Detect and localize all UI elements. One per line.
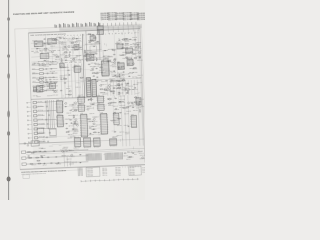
UL vertical stubs — [46, 36, 80, 61]
transistor Q144 — [119, 101, 121, 103]
capacitor C110 — [49, 79, 51, 80]
miscellaneous interconnect wires — [34, 31, 143, 152]
svg-text:C125: C125 — [56, 62, 59, 64]
svg-text:R300 3.3K: R300 3.3K — [102, 75, 108, 77]
svg-text:R350 330: R350 330 — [119, 92, 124, 94]
svg-text:P836 GND: P836 GND — [130, 174, 135, 176]
svg-text:R499 4.7K: R499 4.7K — [140, 158, 145, 160]
resistor R284 — [93, 72, 95, 75]
connector CN302 pins — [92, 81, 96, 94]
mid box Q — [50, 129, 57, 136]
vertical wire from bus — [98, 30, 101, 50]
diode D126 — [118, 91, 120, 93]
IC202 block — [117, 42, 124, 49]
connector J407 row — [28, 127, 57, 131]
resistor R223 — [113, 49, 115, 52]
svg-text:R346 100: R346 100 — [111, 85, 116, 87]
diode D122 — [96, 80, 98, 82]
speck left of power block — [24, 143, 25, 144]
caption tail wire — [58, 169, 83, 172]
resistor R319 — [118, 86, 120, 89]
IC205 block — [117, 61, 124, 69]
transistor Q110 — [60, 66, 62, 68]
diode D103 — [64, 46, 66, 48]
capacitor C139 — [69, 119, 71, 120]
binding hole 5 — [7, 131, 10, 135]
resistor R396 — [88, 118, 90, 121]
IC206 block — [127, 58, 134, 66]
svg-text:R190 1K: R190 1K — [65, 94, 70, 96]
diode D116 — [139, 57, 141, 59]
bottom legend tick column — [78, 167, 82, 176]
svg-text:R468 22K: R468 22K — [122, 107, 127, 109]
resistor R376 — [75, 109, 77, 112]
resistor R160 — [54, 81, 56, 84]
svg-text:R183 0.01: R183 0.01 — [75, 86, 81, 88]
resistor R418 — [109, 102, 111, 105]
transistor Q145 — [62, 150, 64, 152]
svg-text:R188 0.01: R188 0.01 — [64, 75, 70, 77]
svg-text:R349 2.2K: R349 2.2K — [105, 89, 111, 91]
svg-text:R405 470: R405 470 — [91, 129, 96, 131]
svg-text:IC405: IC405 — [80, 113, 83, 115]
capacitor C140 — [65, 128, 67, 129]
svg-text:R359 100: R359 100 — [121, 80, 126, 82]
capacitor C116 — [95, 53, 97, 54]
svg-text:R503 22K: R503 22K — [138, 151, 143, 153]
resistor R159 — [46, 81, 48, 84]
transistor Q106 — [73, 58, 75, 60]
transistor Q133 — [65, 102, 67, 104]
diode D133 — [98, 132, 100, 134]
svg-text:R123 3.3K: R123 3.3K — [59, 37, 65, 39]
potentiometer VR204 row — [32, 76, 58, 79]
svg-text:R110: R110 — [31, 51, 34, 53]
svg-text:VR202: VR202 — [32, 68, 36, 70]
diode D136 — [115, 108, 117, 110]
parts list column 2 — [108, 12, 117, 21]
resistor R374 — [67, 131, 69, 134]
svg-text:J401 IN R: J401 IN R — [38, 101, 43, 103]
diode D118 — [138, 56, 140, 58]
svg-text:R175 4.7K: R175 4.7K — [38, 85, 44, 87]
binding hole 6 — [7, 177, 11, 182]
svg-text:R494 100: R494 100 — [63, 146, 68, 148]
transistor Q107 — [52, 39, 54, 41]
svg-text:R151 4.7K: R151 4.7K — [55, 59, 61, 61]
IC201 block — [86, 53, 94, 61]
svg-text:J403 IN R: J403 IN R — [38, 110, 43, 112]
capacitor C144 — [114, 98, 116, 99]
capacitor C147 — [72, 128, 74, 129]
resistor R395 — [94, 131, 96, 134]
binding hole 3 — [7, 73, 10, 79]
svg-text:R416 1K: R416 1K — [88, 99, 93, 101]
resistor R476 — [37, 159, 39, 162]
diode D110 — [68, 74, 70, 76]
horizontal wire pair B — [84, 50, 102, 53]
capacitor C129 — [88, 80, 90, 81]
transistor Q117 — [130, 51, 132, 53]
diode D148 — [132, 152, 134, 154]
svg-text:R493 330: R493 330 — [39, 147, 44, 149]
svg-text:R119 470: R119 470 — [41, 45, 46, 47]
svg-text:R117: R117 — [62, 49, 65, 51]
diode D108 — [38, 90, 40, 92]
vertical wire x105 — [102, 51, 104, 63]
svg-text:IC204: IC204 — [74, 64, 77, 66]
svg-text:R301 100K: R301 100K — [111, 72, 117, 74]
svg-text:R407 330: R407 330 — [89, 120, 94, 122]
svg-text:R212 0.01: R212 0.01 — [90, 54, 96, 56]
resistor R102 — [65, 51, 67, 54]
svg-text:R341 22K: R341 22K — [115, 85, 120, 87]
transistor Q142 — [76, 124, 78, 126]
capacitor C124 — [137, 44, 139, 45]
capacitor C153 — [27, 155, 29, 156]
IC404 DIP — [77, 103, 85, 111]
svg-text:R426 0.01: R426 0.01 — [107, 99, 113, 101]
svg-text:R439 47: R439 47 — [124, 125, 129, 127]
transistor Q136 — [93, 123, 95, 125]
diode D123 — [113, 70, 115, 72]
capacitor C105 — [35, 43, 37, 44]
svg-text:R430 0.01: R430 0.01 — [139, 99, 145, 101]
connector J410 row — [28, 140, 48, 143]
transistor Q119 — [126, 57, 128, 59]
resistor R237 — [122, 47, 124, 50]
parts list column 4 — [123, 12, 132, 21]
binding line — [8, 0, 10, 200]
diode D106 — [44, 43, 46, 45]
capacitor C111 — [60, 90, 62, 91]
resistor R179 — [64, 77, 66, 80]
svg-text:R214 3.3K: R214 3.3K — [85, 54, 91, 56]
diode D115 — [118, 39, 120, 41]
svg-text:R460 330: R460 330 — [133, 110, 138, 112]
svg-text:IC403: IC403 — [78, 95, 81, 97]
IC203 block — [125, 46, 133, 53]
transistor Q124 — [122, 74, 124, 76]
capacitor C146 — [114, 131, 116, 132]
diode D121 — [96, 76, 98, 78]
transistor Q102 — [52, 51, 54, 53]
svg-text:R352 10K: R352 10K — [116, 88, 121, 90]
svg-text:R289 47: R289 47 — [90, 70, 95, 72]
resistor R108 — [68, 54, 71, 56]
diode D109 — [38, 79, 40, 81]
svg-text:R264 22K: R264 22K — [125, 44, 130, 46]
potentiometer VR206 row — [32, 84, 58, 87]
capacitor C137 — [127, 63, 129, 64]
vertical wire x101.5 — [99, 30, 100, 60]
capacitor C112 — [64, 82, 66, 83]
bottom legend block 2 — [102, 167, 107, 176]
svg-text:R154 3.3K: R154 3.3K — [61, 43, 67, 45]
parts list column 6 — [137, 12, 146, 21]
resistor R354 — [119, 80, 121, 83]
svg-text:J410 IN GND: J410 IN GND — [39, 140, 45, 142]
transistor Q115 — [114, 59, 116, 61]
connector CN301 block — [86, 78, 91, 97]
horizontal wire pair A — [84, 49, 102, 52]
svg-text:R315 100K: R315 100K — [98, 64, 104, 66]
capacitor C128 — [101, 72, 103, 73]
top edge rotated pin labels — [55, 22, 101, 28]
svg-text:R118: R118 — [66, 49, 69, 51]
svg-text:R459 47: R459 47 — [135, 105, 140, 107]
bottom legend block 5 — [142, 167, 146, 174]
top edge pin ticks right — [99, 22, 136, 26]
vertical wire x88.5 — [86, 31, 87, 62]
svg-text:R372 0.01: R372 0.01 — [130, 68, 136, 70]
capacitor C102 — [75, 46, 77, 47]
svg-text:R351 4.7K: R351 4.7K — [103, 93, 109, 95]
crystal label block — [119, 95, 125, 107]
svg-text:R150 22K: R150 22K — [64, 57, 69, 59]
right vertical wires mid — [107, 80, 141, 96]
transistor Q127 — [109, 85, 111, 87]
resistor R335 — [104, 88, 106, 91]
svg-text:R189 1K: R189 1K — [66, 88, 71, 90]
potentiometer VR201 row — [32, 63, 58, 66]
svg-text:R467 100: R467 100 — [129, 105, 134, 107]
svg-text:R169 10K: R169 10K — [46, 84, 51, 86]
svg-text:R170 100K: R170 100K — [53, 94, 59, 96]
svg-text:C127: C127 — [65, 62, 68, 64]
svg-text:R495 100: R495 100 — [27, 157, 32, 159]
transistor Q147 — [142, 157, 144, 159]
svg-text:R451 0.01: R451 0.01 — [72, 123, 78, 125]
capacitor C145 — [139, 101, 141, 102]
block box D — [36, 85, 42, 92]
svg-text:R221 2.2K: R221 2.2K — [95, 43, 101, 45]
svg-text:R347 10K: R347 10K — [129, 85, 134, 87]
bus tap box — [60, 63, 65, 68]
svg-text:J405 IN R: J405 IN R — [38, 118, 43, 120]
svg-text:J407 IN GND: J407 IN GND — [39, 127, 45, 129]
diode D127 — [134, 87, 136, 89]
resistor R282 — [100, 66, 102, 69]
transistor Q141 — [114, 112, 116, 114]
transistor Q108 — [54, 90, 56, 92]
resistor R427 — [135, 101, 137, 104]
note box bottom left — [23, 175, 30, 179]
svg-text:R163 330: R163 330 — [33, 89, 38, 91]
svg-text:R401 22K: R401 22K — [96, 124, 101, 126]
resistor R317 — [126, 91, 129, 93]
parts list column 5 — [130, 12, 139, 21]
resistor R181 — [69, 93, 71, 96]
IC407 DIP — [97, 102, 105, 110]
transistor Q125 — [114, 62, 116, 64]
svg-text:R484 1K: R484 1K — [55, 163, 60, 165]
svg-text:R155 22K: R155 22K — [53, 54, 58, 56]
resistor R236 — [126, 42, 128, 45]
connector J401 row — [27, 100, 56, 104]
svg-text:R203 470: R203 470 — [87, 50, 92, 52]
svg-text:R345 2.2K: R345 2.2K — [137, 82, 143, 84]
diode D129 — [128, 75, 130, 77]
transistor Q112 — [89, 55, 91, 57]
capacitor C143 — [91, 104, 93, 105]
capacitor C130 — [117, 62, 119, 63]
small box right upper — [136, 98, 141, 105]
svg-text:R390 2.2K: R390 2.2K — [72, 104, 78, 106]
resistor R222 — [108, 60, 110, 63]
svg-text:IC404: IC404 — [78, 103, 81, 105]
svg-text:R143 47: R143 47 — [76, 56, 81, 58]
diode D137 — [127, 125, 129, 127]
resistor R180 — [80, 76, 82, 79]
svg-text:R176 10K: R176 10K — [53, 91, 58, 93]
resistor R194 — [88, 33, 90, 36]
capacitor C155 — [124, 152, 126, 153]
svg-text:R152 47: R152 47 — [36, 48, 41, 50]
transistor Q118 — [114, 58, 116, 60]
capacitor C149 — [119, 112, 121, 113]
potentiometer VR205 row — [32, 80, 58, 83]
transistor Q109 — [41, 78, 43, 80]
component value labels row 2 — [33, 60, 82, 65]
svg-text:R232 3.3K: R232 3.3K — [108, 49, 114, 51]
transistor Q132 — [132, 63, 134, 65]
resistor R445 — [72, 115, 75, 117]
resistor R103 — [71, 42, 73, 45]
resistor R363 — [134, 67, 136, 70]
transistor Q113 — [84, 55, 86, 57]
under frame tick marks — [123, 166, 141, 168]
svg-text:R111: R111 — [35, 50, 38, 52]
svg-text:R502 0.01: R502 0.01 — [140, 154, 145, 156]
resistor R281 — [117, 67, 120, 69]
wire stub texture — [31, 34, 143, 165]
capacitor C132 — [127, 83, 129, 84]
svg-text:R171 0.01: R171 0.01 — [32, 72, 38, 74]
binding gutter shade — [0, 0, 8, 200]
diode D146 — [79, 162, 81, 164]
svg-text:R487 470: R487 470 — [31, 164, 36, 166]
transistor Q138 — [87, 108, 89, 110]
transistor Q114 — [85, 54, 87, 56]
resistor R105 — [48, 43, 50, 46]
paper tone wash — [28, 25, 145, 169]
svg-text:R307 470: R307 470 — [120, 68, 125, 70]
transistor Q103 — [75, 41, 77, 43]
binding hole 4 — [7, 110, 10, 118]
vertical wire pair — [100, 35, 103, 49]
svg-text:R469 3.3K: R469 3.3K — [119, 101, 125, 103]
terminal strip TB703 — [93, 138, 100, 148]
svg-text:R165 100K: R165 100K — [53, 79, 59, 81]
svg-text:R116: R116 — [57, 50, 60, 52]
svg-text:R453 3.3K: R453 3.3K — [73, 129, 79, 131]
transistor Q116 — [126, 48, 128, 50]
svg-text:R447 470: R447 470 — [73, 115, 78, 117]
diode D107 — [71, 46, 73, 48]
resistor R375 — [74, 122, 77, 124]
IC402 DIP — [56, 114, 64, 127]
svg-text:R305 0.01: R305 0.01 — [110, 65, 116, 67]
svg-text:R158 100: R158 100 — [59, 41, 64, 43]
diode D113 — [93, 45, 95, 47]
bus junction box — [97, 30, 103, 35]
svg-text:R275 470: R275 470 — [132, 39, 137, 41]
diode D114 — [104, 50, 106, 52]
svg-text:R492 470: R492 470 — [61, 155, 66, 157]
connector J409 row — [28, 136, 57, 140]
capacitor C125 — [105, 80, 107, 81]
capacitor C127 — [88, 64, 90, 65]
terminal strip TB702 — [83, 138, 90, 149]
potentiometer VR207 row — [33, 89, 59, 92]
svg-text:J409 IN GND: J409 IN GND — [39, 136, 45, 138]
capacitor C106 — [43, 38, 45, 39]
svg-text:R276 2.2K: R276 2.2K — [135, 44, 141, 46]
svg-text:R178 2.2K: R178 2.2K — [44, 66, 50, 68]
capacitor C117 — [96, 41, 98, 42]
svg-text:VR204: VR204 — [32, 77, 36, 79]
svg-text:R344 1K: R344 1K — [125, 83, 130, 85]
svg-text:R500 10K: R500 10K — [123, 155, 128, 157]
transistor Q122 — [123, 79, 125, 81]
svg-text:R119: R119 — [71, 49, 74, 51]
svg-text:W826 PWR: W826 PWR — [115, 174, 121, 176]
transistor Q105 — [72, 37, 74, 39]
svg-text:R466 330: R466 330 — [126, 110, 131, 112]
svg-text:R263 22K: R263 22K — [124, 40, 129, 42]
connector J408 row — [28, 131, 50, 134]
capacitor C142 — [89, 127, 91, 128]
svg-text:R153 100: R153 100 — [34, 46, 39, 48]
svg-text:R491 4.7K: R491 4.7K — [65, 149, 71, 151]
connector J404 row — [27, 114, 49, 117]
capacitor C115 — [92, 34, 94, 35]
svg-text:R304 4.7K: R304 4.7K — [101, 81, 107, 83]
resistor R283 — [117, 79, 119, 82]
diode D111 — [60, 78, 62, 80]
potentiometer VR202 row — [32, 67, 58, 70]
speck left of power block 2 — [27, 145, 28, 146]
resistor R107 — [45, 47, 47, 50]
svg-text:R167 22K: R167 22K — [33, 95, 38, 97]
diode D132 — [65, 123, 67, 125]
bottom legend block 1 — [86, 167, 100, 177]
svg-text:R404 10K: R404 10K — [90, 113, 95, 115]
right vertical wires lower — [121, 95, 143, 147]
svg-text:R129 10K: R129 10K — [69, 41, 74, 43]
svg-text:R480 3.3K: R480 3.3K — [67, 158, 73, 160]
scale bar with ticks — [81, 178, 139, 182]
svg-text:R294 100K: R294 100K — [117, 72, 123, 74]
transistor Q137 — [93, 118, 95, 120]
capacitor C133 — [117, 83, 119, 84]
transistor Q140 — [135, 96, 137, 98]
svg-text:R308 2.2K: R308 2.2K — [99, 69, 105, 71]
svg-text:J404 IN R: J404 IN R — [38, 114, 43, 116]
svg-text:C129: C129 — [74, 62, 77, 64]
svg-text:R121: R121 — [79, 49, 82, 51]
svg-text:R443 47: R443 47 — [112, 136, 117, 138]
wire y80.5 — [99, 78, 141, 80]
diode D134 — [89, 132, 91, 134]
resistor R104 — [56, 55, 58, 58]
block box C — [40, 53, 49, 59]
resistor R239 — [122, 38, 124, 41]
svg-text:IC401: IC401 — [56, 99, 59, 101]
diode D105 — [69, 51, 71, 53]
resistor R454 — [138, 102, 141, 104]
